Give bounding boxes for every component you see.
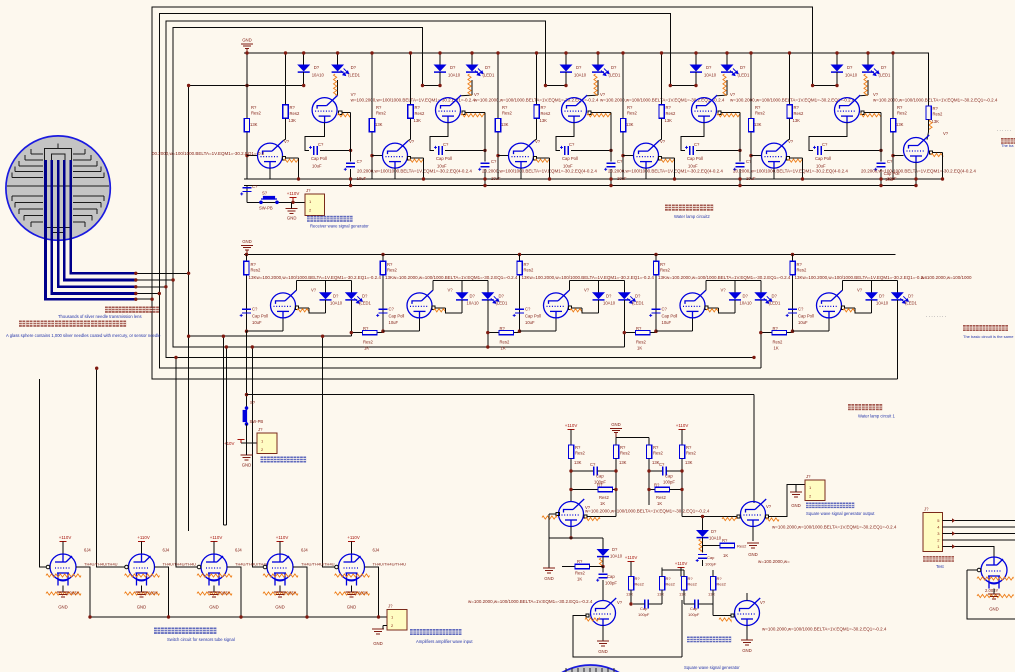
svg-text:D?: D? bbox=[881, 65, 887, 70]
wire bbox=[590, 566, 604, 568]
svg-text:V?: V? bbox=[584, 288, 590, 293]
power +110V row1 bbox=[290, 198, 297, 202]
wire bbox=[246, 443, 248, 455]
svg-text:10A10: 10A10 bbox=[845, 73, 858, 78]
capacitor C polarized bbox=[243, 188, 252, 192]
junction bbox=[251, 345, 254, 348]
pin contact bbox=[786, 157, 789, 160]
highlight bbox=[587, 114, 611, 117]
resistor R Res2 13K bbox=[244, 261, 249, 275]
svg-text:The basic circuit is the same: The basic circuit is the same bbox=[963, 334, 1014, 339]
junction bbox=[167, 615, 170, 618]
wire LED column bbox=[695, 53, 697, 65]
svg-text:Res2: Res2 bbox=[363, 340, 373, 345]
wire LED2 column down bbox=[896, 300, 898, 379]
wire output bbox=[365, 567, 379, 617]
wire anode jog bbox=[860, 94, 868, 97]
junction bbox=[621, 51, 624, 54]
highlight bbox=[788, 159, 803, 162]
junction bbox=[609, 184, 612, 187]
svg-text:V?: V? bbox=[535, 139, 541, 144]
wire LED column 2 bbox=[471, 53, 473, 65]
svg-text:D?: D? bbox=[362, 294, 368, 299]
wire bbox=[602, 580, 604, 600]
wire bbox=[681, 600, 683, 657]
svg-text:D?: D? bbox=[576, 65, 582, 70]
svg-text:Res2: Res2 bbox=[500, 340, 510, 345]
vacuum tube V row2 bbox=[817, 290, 843, 318]
highlight bbox=[722, 517, 737, 520]
capacitor C Cap Poll 10uF bbox=[818, 146, 822, 155]
wire anode column bbox=[410, 53, 412, 105]
ground row2 generator bbox=[241, 455, 253, 460]
svg-text:GND: GND bbox=[742, 648, 752, 653]
junction bbox=[187, 84, 190, 87]
wire net-E bus bbox=[189, 86, 352, 337]
svg-text:13K: 13K bbox=[708, 592, 715, 597]
highlight bbox=[766, 518, 779, 521]
junction bbox=[914, 177, 917, 180]
capacitor C Cap Poll 10uF bbox=[565, 146, 569, 155]
wire bbox=[670, 489, 683, 491]
svg-text:J?: J? bbox=[258, 427, 263, 432]
svg-text:w=100.2000,w=100/1000.BELTA=1V: w=100.2000,w=100/1000.BELTA=1V.EQM1=-30.… bbox=[873, 98, 998, 103]
svg-text:V?: V? bbox=[721, 288, 727, 293]
ground sqwave out bbox=[790, 492, 802, 497]
svg-text:6J4: 6J4 bbox=[301, 548, 308, 553]
svg-text:13K: 13K bbox=[501, 122, 509, 127]
junction bbox=[647, 488, 650, 491]
highlight bbox=[864, 74, 867, 95]
wire connector pin1 bbox=[943, 547, 995, 558]
vacuum tube V lower bbox=[634, 141, 660, 169]
junction bbox=[158, 292, 161, 295]
svg-text:10A10: 10A10 bbox=[876, 301, 889, 306]
svg-text:Cap Poll: Cap Poll bbox=[662, 314, 678, 319]
svg-text:V?: V? bbox=[409, 139, 415, 144]
pin contact bbox=[432, 306, 435, 309]
wire bbox=[880, 113, 882, 162]
vacuum tube V row2 bbox=[271, 290, 297, 318]
svg-text:C?: C? bbox=[318, 142, 324, 147]
connector J test bbox=[923, 513, 943, 552]
power +110V Q3 bbox=[211, 542, 218, 546]
wire bbox=[602, 557, 604, 567]
wire output lead bbox=[845, 307, 855, 309]
junction bbox=[914, 184, 917, 187]
diode D 10A10 bbox=[597, 549, 610, 556]
junction bbox=[222, 335, 225, 338]
diode D 10A10 bbox=[560, 65, 573, 72]
resistor R Res2 13K bbox=[659, 577, 664, 591]
resistor R Res2 13K bbox=[646, 445, 651, 459]
wire bbox=[246, 186, 248, 203]
wire bbox=[684, 603, 695, 605]
resistor R Res2 13K bbox=[790, 261, 795, 275]
junction bbox=[518, 253, 521, 256]
svg-text:D?: D? bbox=[314, 65, 320, 70]
svg-text:13K: 13K bbox=[896, 122, 904, 127]
junction bbox=[680, 469, 683, 472]
highlight V5 grid bbox=[542, 516, 557, 519]
vacuum tube V6 bbox=[741, 499, 767, 527]
svg-text:10uF: 10uF bbox=[617, 176, 627, 181]
svg-text:10A10: 10A10 bbox=[448, 73, 461, 78]
svg-text:GND: GND bbox=[242, 463, 252, 468]
junction bbox=[791, 253, 794, 256]
junction bbox=[134, 285, 137, 288]
wire bbox=[674, 158, 676, 179]
connector J sqwave output bbox=[805, 480, 825, 501]
svg-text:V?: V? bbox=[760, 600, 766, 605]
wire bbox=[246, 424, 248, 443]
svg-text:10A10: 10A10 bbox=[740, 301, 753, 306]
resistor R Res2 1K bbox=[655, 487, 670, 491]
svg-text:10A10: 10A10 bbox=[709, 536, 722, 541]
wire bbox=[141, 542, 143, 555]
wire cathode bbox=[555, 318, 557, 331]
junction bbox=[669, 84, 672, 87]
pin contact V5 grid bbox=[556, 512, 559, 515]
junction bbox=[245, 84, 248, 87]
wire anode lead bbox=[705, 281, 707, 291]
svg-text:Cap Poll: Cap Poll bbox=[252, 314, 268, 319]
resistor R Res2 13K bbox=[517, 261, 522, 275]
resistor R Res2 13K bbox=[495, 118, 500, 131]
svg-text:R?: R? bbox=[541, 105, 547, 110]
junction bbox=[614, 488, 617, 491]
pin contact bbox=[861, 111, 864, 114]
svg-text:Cap Poll: Cap Poll bbox=[884, 171, 900, 176]
junction bbox=[483, 184, 486, 187]
wire cathode link bbox=[520, 330, 557, 332]
junction bbox=[801, 177, 804, 180]
svg-text:J?: J? bbox=[306, 188, 311, 193]
junction bbox=[483, 177, 486, 180]
wire output lead bbox=[933, 152, 943, 154]
junction bbox=[302, 51, 305, 54]
pin contact (grid input) bbox=[125, 565, 129, 569]
diode D 10A10 bbox=[592, 292, 605, 299]
diode D 10A10 bbox=[456, 292, 469, 299]
junction bbox=[614, 469, 617, 472]
wire cathode link bbox=[383, 330, 420, 332]
wire bbox=[702, 546, 704, 553]
svg-text:R?: R? bbox=[797, 262, 803, 267]
wire bbox=[661, 590, 663, 604]
ground osc top bbox=[610, 428, 622, 437]
svg-text:C?: C? bbox=[822, 142, 828, 147]
wire cathode bbox=[993, 589, 995, 595]
junction bbox=[291, 201, 294, 204]
highlight bbox=[860, 114, 881, 117]
svg-text:10uF: 10uF bbox=[525, 320, 535, 325]
connector J sensor generator bbox=[257, 433, 277, 454]
wire output to LED bbox=[309, 308, 326, 313]
svg-text:+110V: +110V bbox=[276, 535, 289, 540]
wire bbox=[536, 118, 538, 132]
wire net-D frame bbox=[173, 28, 624, 347]
label amplifier (CJK) bbox=[410, 629, 462, 635]
wire bbox=[602, 626, 604, 642]
vacuum tube Q5 6J4 bbox=[339, 554, 365, 586]
wire bbox=[471, 80, 473, 95]
junction bbox=[629, 602, 632, 605]
wire anode jog bbox=[461, 94, 472, 97]
highlight bbox=[535, 159, 550, 162]
svg-text:Res2: Res2 bbox=[575, 571, 585, 576]
wire grid stub bbox=[498, 155, 509, 157]
svg-text:V?: V? bbox=[766, 504, 772, 509]
wire cathode bbox=[419, 318, 421, 331]
svg-text:J?: J? bbox=[388, 604, 393, 609]
wire net-A frame bbox=[136, 7, 813, 299]
svg-text:(LED1: (LED1 bbox=[632, 301, 645, 306]
capacitor C Cap Poll 10uF bbox=[515, 309, 524, 313]
svg-text:GND: GND bbox=[58, 605, 68, 610]
svg-text:GND: GND bbox=[242, 38, 252, 43]
wire LED2 column bbox=[350, 281, 352, 293]
svg-text:Cap: Cap bbox=[707, 555, 715, 560]
svg-text:R?: R? bbox=[635, 576, 641, 581]
svg-text:R?: R? bbox=[524, 262, 530, 267]
svg-text:Cap Poll: Cap Poll bbox=[389, 314, 405, 319]
wire bbox=[223, 524, 226, 526]
junction bbox=[305, 615, 308, 618]
wire output bbox=[227, 567, 241, 617]
svg-text:w=100.2000,w=100/1000: w=100.2000,w=100/1000 bbox=[921, 275, 972, 280]
wire bbox=[734, 300, 736, 313]
wire LED2 column bbox=[896, 281, 898, 293]
svg-text:Res2: Res2 bbox=[290, 111, 300, 116]
svg-text:V?: V? bbox=[873, 92, 879, 97]
svg-text:TH4U/TH4U/TH4U: TH4U/TH4U/TH4U bbox=[84, 562, 118, 567]
pin contact bbox=[658, 157, 661, 160]
wire sensor lead (thick) bbox=[46, 160, 136, 299]
junction bbox=[336, 51, 339, 54]
junction bbox=[409, 51, 412, 54]
junction bbox=[879, 149, 882, 152]
junction bbox=[321, 335, 324, 338]
svg-text:Square wave signal generator o: Square wave signal generator output bbox=[806, 511, 875, 516]
svg-text:R?: R? bbox=[500, 326, 506, 331]
junction bbox=[245, 393, 248, 396]
svg-text:Res2: Res2 bbox=[686, 451, 696, 456]
svg-text:Cap Poll: Cap Poll bbox=[798, 314, 814, 319]
svg-text:(LED1: (LED1 bbox=[738, 73, 751, 78]
wire bus drop bbox=[222, 336, 224, 525]
svg-text:GND: GND bbox=[209, 605, 219, 610]
wire stage left column bbox=[892, 53, 894, 179]
diode D 10A10 bbox=[434, 65, 447, 72]
junction bbox=[284, 51, 287, 54]
svg-text:GND: GND bbox=[373, 641, 383, 646]
vacuum tube V row2 bbox=[680, 290, 706, 318]
svg-text:Cap: Cap bbox=[690, 606, 698, 611]
junction bbox=[245, 154, 248, 157]
wire bbox=[789, 118, 791, 132]
vacuum tube V upper bbox=[692, 95, 718, 123]
svg-text:Res2: Res2 bbox=[575, 451, 585, 456]
wire anode column bbox=[285, 53, 287, 105]
svg-text:Res2: Res2 bbox=[666, 582, 676, 587]
svg-text:V?: V? bbox=[311, 288, 317, 293]
ground V7 bbox=[597, 641, 609, 646]
wire bbox=[702, 538, 704, 546]
junction bbox=[518, 330, 521, 333]
svg-text:Res2: Res2 bbox=[620, 451, 630, 456]
LED D LED1 bbox=[481, 292, 494, 299]
LED D LED1 bbox=[618, 292, 631, 299]
svg-text:Water lamp circuit2: Water lamp circuit2 bbox=[674, 214, 710, 219]
wire row2 top rail bbox=[244, 254, 896, 256]
wire bbox=[291, 202, 293, 208]
wire anode rail bbox=[842, 280, 897, 282]
highlight bbox=[599, 558, 602, 566]
resistor R Res2 13K bbox=[659, 105, 664, 119]
wire output lead bbox=[572, 307, 582, 309]
wire bbox=[649, 470, 663, 472]
wire V7 grid loop bbox=[573, 616, 682, 658]
arrow marks bbox=[952, 518, 955, 522]
wire cathode bbox=[520, 168, 522, 179]
svg-text:R?: R? bbox=[686, 445, 692, 450]
svg-text:13K: 13K bbox=[657, 592, 664, 597]
svg-text:R?: R? bbox=[415, 105, 421, 110]
wire bbox=[713, 615, 731, 617]
capacitor C Cap Poll 10uF bbox=[788, 309, 797, 313]
svg-text:Cap Poll: Cap Poll bbox=[311, 156, 327, 161]
resistor R Res2 13K bbox=[890, 118, 895, 131]
wire cathode bbox=[915, 163, 917, 186]
wire LED2 column bbox=[760, 281, 762, 293]
wire bbox=[661, 118, 663, 132]
junction bbox=[350, 331, 353, 334]
svg-text:C?: C? bbox=[389, 307, 395, 312]
svg-text:A glass sphere contains 1,000: A glass sphere contains 1,000 silver nee… bbox=[6, 333, 161, 338]
highlight bbox=[570, 309, 582, 312]
power +10V row2 bbox=[238, 440, 245, 444]
highlight bbox=[585, 618, 600, 621]
svg-text:6J4: 6J4 bbox=[373, 548, 380, 553]
wire bbox=[320, 149, 351, 151]
label sensor title (CJK) bbox=[105, 307, 159, 313]
wire bbox=[285, 118, 287, 132]
resistor R Res2 1K bbox=[772, 330, 787, 334]
wire output lead bbox=[286, 157, 299, 159]
wire grid feed tube Q4 bbox=[252, 347, 258, 567]
junction bbox=[701, 515, 704, 518]
capacitor C Cap 100pF bbox=[599, 574, 608, 578]
highlight bbox=[843, 309, 855, 312]
svg-text:V?: V? bbox=[857, 288, 863, 293]
sensor circle 2 (partial at bottom edge) bbox=[533, 665, 648, 672]
wire stage column bbox=[382, 255, 384, 332]
wire grid bbox=[192, 566, 198, 568]
svg-text:100pF: 100pF bbox=[688, 612, 700, 617]
wire cathode bbox=[213, 586, 215, 593]
svg-text:1K: 1K bbox=[657, 501, 662, 506]
wire LED column 2 bbox=[337, 53, 339, 65]
wire grid stub bbox=[623, 155, 634, 157]
svg-text:S?: S? bbox=[262, 191, 268, 196]
junction bbox=[297, 177, 300, 180]
wire cathode coupling bbox=[809, 123, 847, 151]
vacuum tube V upper bbox=[562, 95, 588, 123]
wire bbox=[942, 153, 944, 180]
wire cathode link bbox=[656, 330, 693, 332]
wire grid feed tube Q1 bbox=[40, 379, 42, 567]
wire to oscillator tube V6 bbox=[753, 395, 755, 503]
svg-text:Water lamp circuit 1: Water lamp circuit 1 bbox=[858, 414, 896, 419]
wire bbox=[350, 169, 352, 186]
junction bbox=[569, 536, 572, 539]
capacitor C Cap 100pF bbox=[698, 555, 707, 559]
wire bbox=[439, 72, 441, 85]
svg-text:D?: D? bbox=[740, 65, 746, 70]
svg-text:+110V: +110V bbox=[210, 535, 223, 540]
vacuum tube V7 bbox=[591, 598, 617, 626]
svg-text:w=100.2000,w=100/1000.BELTA=1V: w=100.2000,w=100/1000.BELTA=1V.EQM1=-30.… bbox=[468, 599, 593, 604]
junction bbox=[381, 253, 384, 256]
wire bbox=[247, 442, 258, 444]
wire bbox=[746, 593, 748, 601]
wire anode column S6 bbox=[928, 53, 930, 106]
wire bbox=[62, 542, 64, 555]
svg-text:D?: D? bbox=[470, 294, 476, 299]
wire bbox=[241, 442, 247, 444]
wire output lead bbox=[662, 157, 675, 159]
wire bbox=[571, 149, 611, 151]
junction bbox=[891, 51, 894, 54]
wire cathode bbox=[351, 586, 353, 593]
pin contact bbox=[584, 515, 587, 518]
wire anode lead bbox=[295, 281, 297, 291]
resistor R Res2 13K bbox=[653, 261, 658, 275]
svg-text:10A10: 10A10 bbox=[330, 301, 343, 306]
junction bbox=[621, 154, 624, 157]
wire grid bbox=[330, 566, 336, 568]
resistor R Res2 13K bbox=[926, 106, 931, 120]
vacuum tube V lower bbox=[258, 141, 284, 169]
highlight bbox=[461, 114, 485, 117]
label test connector (CJK) bbox=[923, 556, 954, 562]
svg-text:(LED1: (LED1 bbox=[609, 73, 622, 78]
diode D 10A10 bbox=[696, 530, 709, 537]
svg-text:Cap: Cap bbox=[607, 574, 615, 579]
wire bbox=[598, 300, 600, 313]
highlight bbox=[723, 74, 726, 95]
wire cathode coupling bbox=[430, 123, 448, 151]
wire output lead upper bbox=[591, 112, 611, 114]
junction bbox=[660, 51, 663, 54]
label water lamp circuit1 (CJK) bbox=[848, 404, 882, 410]
svg-text:1K: 1K bbox=[723, 553, 728, 558]
wire bbox=[337, 80, 339, 95]
wire sensor lead continuation bbox=[136, 279, 173, 281]
junction bbox=[673, 177, 676, 180]
wire grid bbox=[120, 566, 126, 568]
wire anode column bbox=[536, 53, 538, 105]
LED D LED1 bbox=[331, 65, 344, 72]
pin contact bbox=[977, 568, 981, 572]
svg-text:V?: V? bbox=[474, 92, 480, 97]
vacuum tube Q4 6J4 bbox=[267, 554, 293, 586]
wire LED1 column bbox=[734, 281, 736, 293]
wire bbox=[695, 72, 697, 85]
wire LED column 2 bbox=[867, 53, 869, 65]
pin contact bbox=[841, 306, 844, 309]
